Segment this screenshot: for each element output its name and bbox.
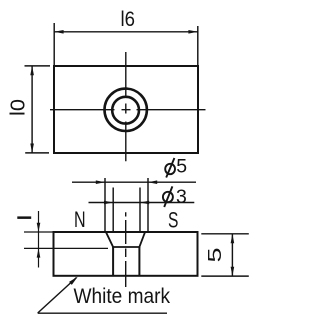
side view outline: [54, 232, 198, 276]
horizontal center line (top view): [50, 109, 206, 111]
dimension phi5: phi symbol: [165, 158, 175, 178]
dimension 1: top extension line: [24, 231, 53, 233]
dimension 10: extension lines: [25, 66, 51, 153]
dimension phi5: right arrow: [148, 180, 157, 184]
svg-text:l6: l6: [121, 8, 136, 31]
dimension phi3: phi symbol: [163, 186, 173, 207]
countersink bottom line: [112, 246, 140, 248]
dimension 1: dimension line: [38, 211, 40, 268]
white mark underline: [38, 312, 167, 314]
countersink right diagonal: [139, 232, 145, 247]
vertical center line (side view): [125, 212, 127, 287]
dimension 5: dimension line: [231, 234, 233, 276]
svg-text:N: N: [74, 207, 86, 232]
countersink left diagonal: [106, 232, 113, 247]
dimension phi5: left arrow: [96, 180, 105, 184]
svg-text:S: S: [168, 208, 178, 233]
dimension 5: extension lines: [201, 234, 249, 276]
dimension 1: upper arrow (points down): [37, 223, 41, 232]
hole inner circle (top view): [112, 97, 139, 124]
white mark leader arrowhead: [69, 277, 78, 285]
white mark leader line: [38, 278, 77, 314]
depth 1 extension line into part: [24, 247, 108, 249]
hole left edge (side view): [112, 247, 114, 276]
dimension 10: top arrow: [30, 66, 34, 75]
top view outline: [54, 66, 198, 153]
dimension 16: left arrow: [54, 30, 63, 34]
dimension 5: top arrow: [231, 234, 235, 243]
dimension 1: lower arrow (points up): [37, 248, 41, 257]
svg-text:5: 5: [205, 248, 225, 263]
svg-text:l0: l0: [8, 99, 30, 116]
vertical center line (top view): [125, 52, 127, 161]
dimension phi3: right arrow: [140, 201, 149, 205]
svg-text:5: 5: [176, 156, 187, 178]
svg-text:White mark: White mark: [74, 284, 171, 308]
dimension phi5: extension lines: [105, 178, 148, 231]
dimension phi3: extension lines: [113, 188, 140, 232]
dimension 5: bottom arrow: [231, 267, 235, 276]
dimension 16: extension lines: [54, 23, 198, 66]
dimension 10: bottom arrow: [30, 144, 34, 153]
dimension phi5: dimension line: [72, 181, 196, 183]
dimension 10: dimension line: [31, 66, 33, 153]
dimension phi3: dimension line: [89, 202, 195, 204]
dimension 1: text (rotated bar): [17, 216, 31, 219]
dimension 16: right arrow: [188, 30, 197, 34]
dimension 16: dimension line: [54, 31, 198, 33]
hole right edge (side view): [138, 247, 140, 276]
svg-text:3: 3: [176, 186, 187, 208]
dimension phi3: left arrow: [104, 201, 113, 205]
hole outer circle (top view): [105, 89, 147, 131]
